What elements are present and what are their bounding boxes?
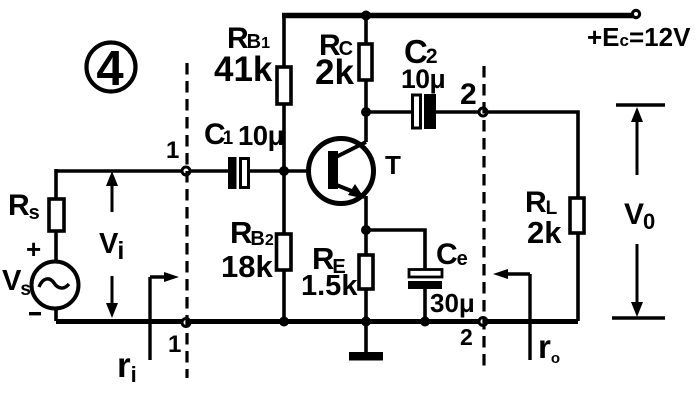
label C1 [204, 118, 284, 151]
svg-text:Vi: Vi [99, 228, 124, 265]
marker r0 [493, 269, 530, 360]
svg-text:18k: 18k [221, 249, 273, 284]
capacitor C1 [228, 157, 249, 189]
junction dot top rail RC [361, 11, 371, 21]
junction dot RB2 bottom [279, 317, 289, 327]
wire Rs to Vs [54, 231, 58, 261]
label Rs [8, 189, 40, 224]
wire RB1 column [282, 13, 286, 234]
dashed line 1-1 [185, 63, 188, 378]
node 1 lower [182, 319, 190, 327]
junction dot base [279, 166, 289, 176]
svg-text:41k: 41k [214, 50, 273, 89]
label ri [117, 346, 137, 387]
label RB1 [214, 22, 273, 89]
junction dot emitter [361, 225, 371, 235]
svg-text:+Ec=12V: +Ec=12V [587, 22, 691, 52]
svg-text:2k: 2k [315, 53, 354, 92]
label 1 upper [166, 137, 179, 164]
label Ce [430, 238, 475, 318]
wire Vs to bottom rail [54, 308, 58, 321]
terminal +Ec [632, 10, 639, 17]
junction dot collector [361, 107, 371, 117]
wire emitter to Ce [366, 230, 425, 270]
svg-text:RB2: RB2 [230, 215, 274, 250]
svg-text:C1: C1 [204, 118, 234, 151]
label RL [525, 186, 562, 250]
svg-text:30μ: 30μ [430, 288, 475, 318]
ground [349, 323, 383, 361]
svg-text:Rs: Rs [8, 189, 40, 224]
marker ri [150, 272, 179, 360]
label plus [26, 234, 41, 264]
svg-text:10μ: 10μ [238, 120, 284, 151]
wire C2 to node 2 [436, 110, 479, 114]
svg-text:2: 2 [460, 324, 473, 350]
wire input [56, 169, 182, 173]
wire Ce to bottom rail [423, 289, 427, 321]
svg-text:1.5k: 1.5k [301, 270, 358, 302]
label +Ec = 12V [587, 22, 691, 52]
svg-text:Vs: Vs [2, 265, 31, 300]
dashed line 2-2 [482, 66, 485, 367]
label RE [301, 241, 358, 302]
wire RL to bottom rail [576, 233, 580, 321]
label T [385, 150, 401, 180]
wire RB2 to bottom rail [282, 270, 286, 321]
svg-text:2: 2 [460, 78, 477, 111]
source Vs [32, 262, 79, 309]
svg-text:2k: 2k [527, 215, 562, 250]
wire RE to bottom rail [364, 289, 368, 322]
svg-text:+: + [26, 234, 41, 264]
label minus [29, 312, 41, 315]
figure number 4 [87, 42, 136, 96]
wire emitter [364, 196, 368, 255]
label V0 [624, 198, 655, 234]
label Vi [99, 228, 124, 265]
label RC [315, 29, 354, 92]
label 2 upper [460, 78, 477, 111]
svg-text:1: 1 [168, 331, 181, 358]
label 1 lower [168, 331, 181, 358]
capacitor Ce [408, 270, 442, 290]
wire top rail [282, 13, 633, 19]
label 2 lower [460, 324, 473, 350]
svg-text:ro: ro [538, 328, 560, 367]
resistor Rs [49, 199, 64, 231]
svg-text:Ce: Ce [436, 238, 468, 271]
resistor RB1 [277, 67, 291, 104]
label Vs [2, 265, 31, 300]
svg-text:1: 1 [166, 137, 179, 164]
junction dot RE bottom [361, 317, 371, 327]
transistor T [309, 139, 374, 204]
resistor RB2 [277, 234, 292, 270]
capacitor C2 [413, 94, 437, 129]
wire node 2 to RL [487, 112, 578, 198]
node 1 upper [182, 167, 190, 175]
node 2 upper [479, 108, 487, 116]
wire Rs top [54, 169, 58, 199]
node 2 lower [479, 318, 487, 326]
resistor RL [570, 198, 584, 233]
marker Vi [106, 171, 118, 318]
wire collector to C2 [366, 110, 411, 114]
wire node1 to C1 [190, 169, 228, 173]
label C2 [401, 33, 445, 94]
svg-text:ri: ri [117, 346, 137, 387]
wire bottom rail [56, 319, 578, 324]
resistor RE [359, 255, 373, 289]
marker V0 [612, 105, 665, 318]
wire RC column [364, 13, 368, 142]
svg-text:T: T [385, 150, 401, 180]
label r0 [538, 328, 560, 367]
svg-text:10μ: 10μ [401, 64, 445, 94]
svg-text:4: 4 [96, 42, 123, 96]
junction dot Ce bottom [420, 317, 430, 327]
svg-text:V0: V0 [624, 198, 655, 234]
wire base [250, 169, 310, 173]
label RB2 [221, 215, 274, 284]
resistor RC [359, 44, 372, 80]
